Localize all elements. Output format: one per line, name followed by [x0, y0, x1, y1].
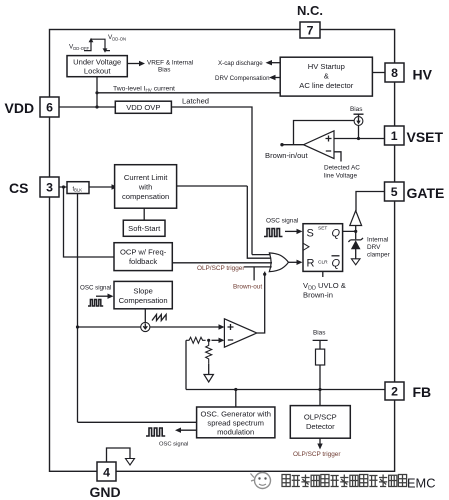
svg-text:Bias: Bias [158, 67, 170, 74]
arrow OSC to S input [285, 230, 297, 232]
wire OVP latched to OR gate [171, 107, 252, 255]
svg-text:modulation: modulation [217, 428, 254, 437]
pin 1 box [385, 126, 405, 145]
wire HV box to pin 8 [372, 72, 385, 74]
comparator U-brown (brown-in/out detect) [304, 131, 335, 159]
node dot FB divider [207, 339, 210, 342]
wire pin 3 CS to current limit [59, 186, 112, 188]
wire CS branch to OCP [64, 187, 115, 257]
svg-text:tBLK: tBLK [73, 187, 83, 193]
svg-text:S: S [307, 228, 314, 240]
wire UVLO bottom to VDD rail [96, 77, 98, 107]
ground arrow at pin 4 [126, 459, 135, 466]
pin 7 box [300, 22, 320, 38]
svg-text:OSC signal: OSC signal [266, 218, 298, 225]
pin 3 box [40, 177, 59, 197]
svg-text:VSET: VSET [407, 129, 444, 145]
OCP w/ freq-foldback box [114, 243, 172, 271]
node dot CS branch [62, 185, 65, 188]
node dot FB/bias [318, 388, 321, 391]
svg-text:HV Startup: HV Startup [308, 62, 345, 71]
wire pin 5 GATE to driver [356, 192, 385, 212]
bias current source symbol [354, 114, 364, 117]
ground arrow below clamper [351, 259, 360, 265]
pin 5 box [385, 182, 405, 201]
svg-text:OSC signal: OSC signal [80, 285, 111, 292]
svg-text:Q: Q [332, 258, 341, 270]
node dot VDD rail [95, 105, 98, 108]
wire brown-out stub [253, 267, 255, 281]
svg-text:3: 3 [46, 181, 53, 195]
wire VDD pin to OVP [59, 106, 115, 108]
OSC generator box [197, 407, 275, 438]
SR latch U-latch box [303, 224, 343, 272]
pulse waveform icon (osc out) [146, 428, 165, 436]
arrow OSC into slope comp [96, 295, 108, 297]
svg-text:OSC signal: OSC signal [159, 442, 188, 448]
svg-text:GND: GND [90, 484, 121, 500]
node dot on + input [357, 137, 360, 140]
arrow OSC signal output [180, 429, 197, 431]
svg-text:OCP w/ Freq-: OCP w/ Freq- [120, 248, 167, 257]
wire two-level IHV current to HV startup [97, 92, 280, 94]
wire comparator output Brown-in/out [282, 144, 304, 146]
blanking time tBLK box [67, 182, 89, 194]
svg-text:8: 8 [391, 66, 398, 80]
svg-text:OLP/SCP trigger: OLP/SCP trigger [293, 451, 341, 458]
svg-text:7: 7 [307, 24, 314, 38]
svg-text:Brown-in: Brown-in [303, 291, 333, 300]
svg-text:GATE: GATE [407, 185, 445, 201]
svg-text:VDD OVP: VDD OVP [126, 103, 160, 112]
node dot FB/OSC [234, 388, 237, 391]
svg-text:SET: SET [318, 226, 327, 232]
svg-text:Q: Q [332, 228, 341, 240]
svg-text:Two-level IHV current: Two-level IHV current [113, 86, 175, 93]
pin 4 box [97, 462, 116, 481]
pin 8 box [385, 63, 404, 82]
under voltage lockout U-UVLO box [67, 56, 127, 77]
ground arrow FB divider [204, 375, 213, 383]
wire FB divider up-leg [185, 340, 187, 389]
svg-text:1: 1 [391, 129, 398, 143]
soft-start box [123, 220, 165, 236]
arrow X-cap discharge [271, 62, 280, 64]
wire feedback to bias node [294, 121, 355, 145]
svg-text:Lockout: Lockout [84, 67, 111, 76]
node dot CS rail to summing [76, 325, 79, 328]
current limit box [115, 165, 177, 209]
svg-text:compensation: compensation [122, 192, 169, 201]
svg-text:CS: CS [9, 180, 28, 196]
slope compensation box [114, 281, 172, 308]
svg-text:foldback: foldback [129, 257, 157, 266]
arrow UVLO to VREF [127, 63, 140, 65]
resistor (vertical, FB divider) [206, 340, 212, 364]
gate driver buffer [350, 211, 362, 226]
svg-text:OLP/SCP trigger: OLP/SCP trigger [197, 265, 245, 272]
OR gate (fault reset) [269, 253, 288, 272]
IC boundary box [50, 30, 395, 472]
svg-text:DRV Compensation: DRV Compensation [215, 75, 270, 82]
svg-text:FB: FB [413, 384, 432, 400]
svg-text:Brown-in/out: Brown-in/out [265, 151, 309, 160]
svg-text:spread spectrum: spread spectrum [207, 419, 264, 428]
svg-text:CLR: CLR [318, 260, 328, 266]
sawtooth waveform icon [152, 315, 166, 321]
wire FB net to OSC generator [235, 390, 237, 408]
svg-text:X-cap discharge: X-cap discharge [218, 60, 263, 67]
wire OCP to OR input [172, 262, 272, 264]
wire PWM comparator output to OR bottom [257, 272, 265, 333]
pin 6 box [40, 97, 59, 117]
svg-text:6: 6 [46, 101, 53, 115]
wire CS rail to summing node [78, 326, 141, 328]
svg-text:Current Limit: Current Limit [124, 173, 168, 182]
svg-text:Under Voltage: Under Voltage [73, 58, 121, 67]
wire OLP/SCP trigger to OR input [244, 266, 272, 268]
wire FB pull-up to FB net [319, 365, 321, 390]
OLP/SCP detector box [290, 406, 350, 439]
svg-text:AC line detector: AC line detector [299, 81, 353, 90]
latch clock triangle [303, 243, 309, 250]
svg-text:Detected AC: Detected AC [324, 165, 360, 172]
svg-text:5: 5 [391, 185, 398, 199]
svg-text:EMC: EMC [407, 476, 435, 491]
wire latch bottom stub [322, 271, 324, 277]
resistor R-fb (FB pull-up) [316, 349, 325, 365]
svg-text:HV: HV [413, 67, 433, 83]
svg-text:N.C.: N.C. [297, 3, 323, 18]
pin 2 box [385, 382, 404, 400]
svg-text:line Voltage: line Voltage [324, 173, 357, 180]
svg-text:Soft-Start: Soft-Start [128, 224, 161, 233]
svg-text:Detector: Detector [306, 422, 335, 431]
wire inverting input stub [334, 152, 341, 162]
svg-text:R: R [307, 258, 315, 270]
svg-text:OSC. Generator with: OSC. Generator with [200, 410, 270, 419]
HV startup & AC line detector box [280, 57, 372, 96]
wire CS sense vertical rail [77, 194, 79, 423]
wire latch Q to driver input [343, 226, 356, 240]
wire FB net horizontal [186, 389, 385, 391]
wire pin 1 VSET to comparator [334, 138, 385, 140]
svg-text:Bias: Bias [313, 330, 325, 337]
svg-text:4: 4 [103, 466, 110, 480]
watermark CJK text strokes [282, 475, 407, 487]
svg-text:Compensation: Compensation [119, 296, 168, 305]
svg-text:Slope: Slope [133, 287, 152, 296]
hysteresis symbol VDD on/off [84, 39, 110, 50]
wire FB net to OLP/SCP detector [319, 390, 321, 406]
resistor (horizontal, FB divider) [186, 337, 206, 343]
svg-text:VDD: VDD [5, 100, 35, 116]
wire bias to noninverting input [358, 125, 360, 138]
svg-text:clamper: clamper [367, 252, 391, 259]
svg-text:Internal: Internal [367, 237, 388, 244]
svg-text:OLP/SCP: OLP/SCP [304, 413, 337, 422]
wire slope comp to summing node [144, 309, 146, 323]
svg-text:DRV: DRV [367, 244, 381, 251]
wire current limit to OR input [247, 186, 271, 258]
svg-text:Brown-out: Brown-out [233, 284, 262, 291]
pulse waveform icon (slope comp) [88, 300, 103, 307]
node dot UVLO/two-level [95, 91, 98, 94]
wire OSC generator to CS rail [78, 421, 197, 423]
summing node circle [141, 322, 150, 331]
watermark logo [251, 473, 271, 489]
svg-text:2: 2 [391, 385, 398, 399]
svg-text:Bias: Bias [350, 106, 362, 113]
arrow FB divider to PWM - input [212, 339, 220, 341]
pin 4 ground bracket wire [107, 448, 131, 462]
arrow DRV compensation [275, 77, 281, 79]
pulse waveform icon (latch set) [264, 229, 283, 237]
arrow summing to PWM + input [150, 326, 219, 328]
bias supply bar [313, 340, 328, 349]
svg-text:VREF & Internal: VREF & Internal [147, 60, 193, 67]
PWM comparator U-pwm [224, 319, 256, 347]
svg-text:with: with [138, 183, 153, 192]
wire current limit output [177, 185, 248, 187]
VDD OVP box [115, 101, 171, 113]
zener diode internal DRV clamper [348, 238, 363, 242]
wire OVP vertical into OR input [252, 254, 271, 256]
svg-text:&: & [324, 72, 329, 81]
wire current limit to soft-start [143, 208, 145, 220]
arrow OLP/SCP trigger out [319, 438, 321, 444]
svg-text:Latched: Latched [182, 97, 209, 106]
arrow OR output to R input [288, 261, 297, 263]
